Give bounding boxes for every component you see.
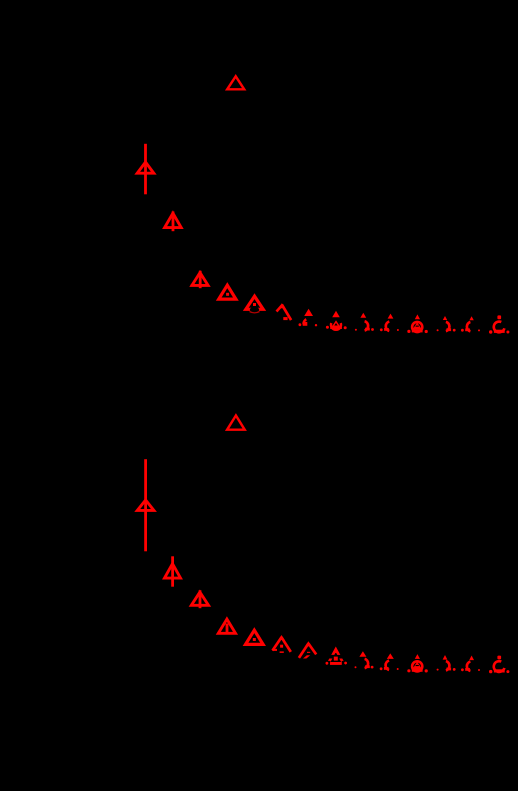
legend marker, panel 1 xyxy=(227,76,244,89)
marker T10 (occluded crescent) xyxy=(388,314,394,319)
faint arc below T5 xyxy=(250,312,260,313)
marker B2 xyxy=(165,564,181,578)
error bar t1 (top panel) xyxy=(144,144,147,195)
marker B14 (ring remnant) xyxy=(497,656,501,660)
marker B10 (occluded crescent) xyxy=(387,653,394,659)
marker T6 (partially occluded) xyxy=(277,306,282,312)
marker T14 (ring remnant) xyxy=(497,315,501,319)
marker T5 xyxy=(246,296,263,309)
marker T13 (occluded crescent) xyxy=(469,316,473,320)
marker T8 (ring remnant) xyxy=(332,311,340,317)
marker B9 (occluded crescent) xyxy=(359,651,366,657)
marker T12 (occluded crescent) xyxy=(443,316,447,320)
error bar b1 (bottom panel) xyxy=(144,459,147,551)
center dot B8 xyxy=(334,657,338,661)
center dot B5 xyxy=(253,638,256,641)
marker B7 (base occluded) xyxy=(305,641,312,646)
error bar t2 (top panel) xyxy=(172,212,175,232)
center dot B6 xyxy=(280,645,283,648)
marker B5 xyxy=(246,630,264,644)
error bar b2 (bottom panel) xyxy=(171,556,174,586)
marker B6 (base occluded) xyxy=(273,637,282,650)
black occlusion on T5 base xyxy=(250,307,259,313)
error bar b4 (bottom panel) xyxy=(226,624,229,634)
marker B1 xyxy=(137,500,154,510)
center dot T5 xyxy=(253,303,256,306)
marker B3 xyxy=(191,592,208,605)
marker B11 (ring remnant) xyxy=(415,654,420,659)
marker T1 xyxy=(137,162,154,173)
marker T7 (occluded crescent) xyxy=(304,309,313,316)
error bar t3 (top panel) xyxy=(199,271,202,288)
marker B13 (occluded crescent) xyxy=(469,656,474,661)
marker B8 triangle xyxy=(328,649,343,663)
marker T11 (ring remnant) xyxy=(415,314,420,319)
marker B4 xyxy=(218,619,235,633)
legend marker, panel 2 xyxy=(227,416,245,430)
marker T9 (occluded crescent) xyxy=(360,313,366,318)
marker T2 xyxy=(165,213,182,227)
center dot T4 xyxy=(226,293,229,296)
marker B12 (occluded crescent) xyxy=(443,655,448,660)
marker T3 xyxy=(192,273,208,286)
stray fragment left of T3 base xyxy=(191,284,197,286)
marker T4 xyxy=(219,285,236,299)
error bar b3 (bottom panel) xyxy=(199,590,202,608)
